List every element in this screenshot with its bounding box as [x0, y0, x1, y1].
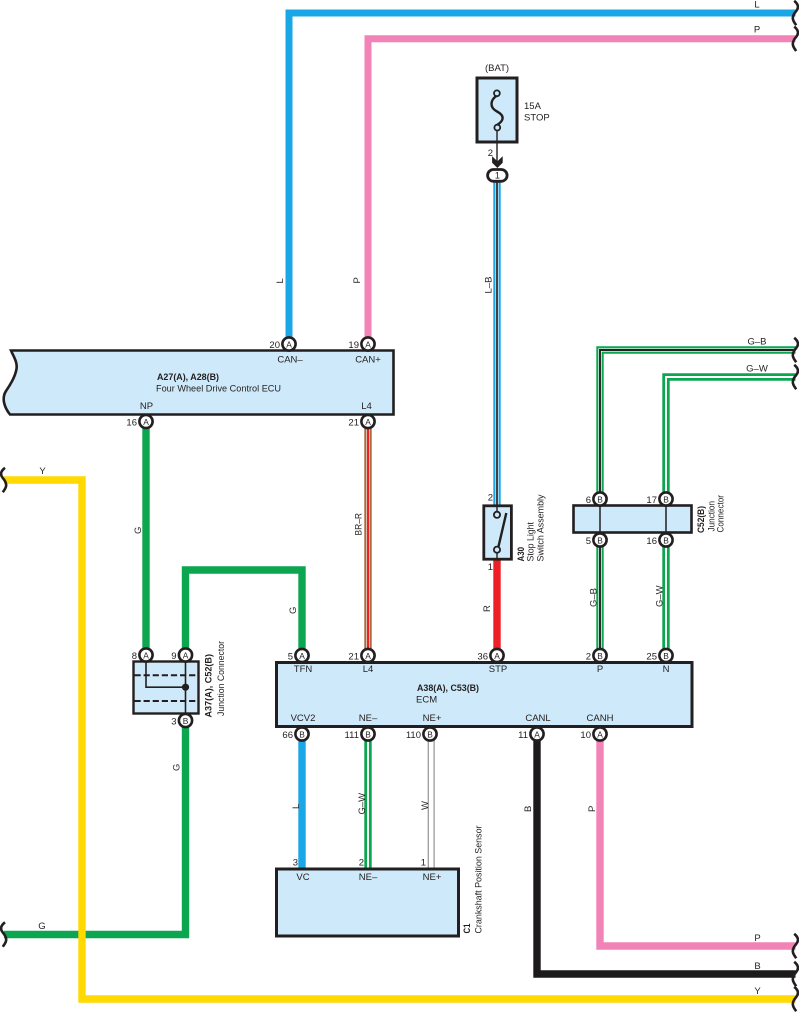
break (left, wire G) — [1, 922, 6, 946]
svg-text:36: 36 — [477, 652, 488, 663]
wire B (black) from ECM CANL 11 to right edge — [537, 740, 796, 974]
svg-text:Y: Y — [39, 466, 46, 477]
svg-text:G–B: G–B — [589, 588, 600, 607]
svg-text:C52(B): C52(B) — [696, 506, 707, 533]
svg-text:A: A — [494, 651, 500, 661]
svg-text:15A: 15A — [524, 101, 542, 112]
svg-text:R: R — [482, 605, 493, 612]
svg-text:B: B — [663, 535, 669, 545]
svg-text:6: 6 — [586, 495, 591, 506]
svg-text:11: 11 — [518, 730, 528, 741]
wire P (pink) to 4WD ECU CAN+ terminal 19 — [368, 39, 796, 340]
svg-text:B: B — [663, 494, 669, 504]
wire P (pink) from ECM CANH 10 to right edge — [600, 740, 796, 946]
svg-text:NE+: NE+ — [423, 872, 442, 883]
terminal 36 A (STP) — [477, 649, 503, 663]
wire G from 4WD ECU NP 16 to junction A37 terminal 8 — [142, 426, 149, 650]
svg-text:B: B — [597, 535, 603, 545]
svg-text:A: A — [534, 729, 540, 739]
terminal 66 B (VCV2) — [282, 727, 308, 741]
wire W (white) from ECM NE+ 110 to sensor C1 pin 1 — [428, 740, 434, 869]
terminal 9 A — [171, 648, 192, 662]
svg-text:Y: Y — [754, 986, 761, 997]
svg-text:Connector: Connector — [716, 495, 727, 533]
break (right, wire G-W) — [793, 365, 798, 389]
svg-text:66: 66 — [282, 730, 293, 741]
terminal 110 B (NE+) — [406, 727, 437, 741]
svg-text:VC: VC — [296, 872, 309, 883]
svg-text:L: L — [754, 0, 759, 11]
svg-text:17: 17 — [646, 495, 657, 506]
svg-text:A37(A), C52(B): A37(A), C52(B) — [204, 654, 215, 718]
svg-text:B: B — [597, 651, 603, 661]
svg-text:B: B — [597, 494, 603, 504]
svg-text:Four Wheel Drive Control ECU: Four Wheel Drive Control ECU — [156, 384, 281, 395]
wire BR-R from 4WD ECU L4 21 to ECM L4 21 — [364, 426, 371, 650]
svg-text:G–W: G–W — [357, 793, 368, 815]
wire R (red) from switch pin 1 to ECM STP 36 — [493, 559, 500, 650]
break (bottom right, wire Y) — [793, 987, 798, 1011]
svg-text:8: 8 — [132, 651, 137, 662]
svg-text:G: G — [172, 764, 183, 771]
svg-text:3: 3 — [171, 717, 176, 728]
terminal 21 A (L4 bottom) — [348, 649, 374, 663]
svg-text:VCV2: VCV2 — [291, 713, 316, 724]
svg-text:111: 111 — [345, 730, 359, 741]
svg-text:A: A — [597, 729, 603, 739]
svg-text:A: A — [365, 651, 371, 661]
svg-text:TFN: TFN — [294, 664, 313, 675]
svg-text:NP: NP — [140, 401, 153, 412]
wire L (blue) to 4WD ECU CAN- terminal 20 — [289, 13, 796, 340]
wire Y (yellow) from left edge down and across bottom to right edge — [4, 480, 796, 999]
wire L-B (blue/black) from fuse connector to stop light switch pin 2 — [493, 180, 500, 506]
svg-text:A27(A), A28(B): A27(A), A28(B) — [157, 372, 219, 383]
arrow into connector — [492, 156, 503, 168]
svg-text:1: 1 — [488, 562, 493, 573]
svg-text:25: 25 — [646, 652, 657, 663]
svg-text:B: B — [523, 806, 534, 812]
terminal 6 B — [586, 492, 607, 506]
svg-text:A38(A), C53(B): A38(A), C53(B) — [417, 683, 479, 694]
wire G-B from C52(B) terminal 5 to ECM P 2 — [596, 546, 603, 650]
terminal 2 B (P) — [586, 649, 607, 663]
svg-text:(BAT): (BAT) — [485, 63, 509, 74]
svg-text:NE+: NE+ — [423, 713, 442, 724]
svg-text:B: B — [663, 651, 669, 661]
wire L (blue) from ECM VCV2 66 to sensor C1 pin 3 — [298, 740, 305, 869]
svg-text:G–B: G–B — [747, 337, 766, 348]
svg-text:W: W — [420, 801, 431, 810]
terminal 17 B — [646, 492, 672, 506]
svg-text:C1: C1 — [462, 923, 473, 934]
svg-text:G–W: G–W — [655, 585, 666, 607]
svg-text:B: B — [427, 729, 433, 739]
terminal 21 A (L4 top) — [348, 415, 374, 429]
svg-text:Switch Assembly: Switch Assembly — [536, 494, 547, 561]
svg-text:P: P — [754, 25, 760, 36]
svg-text:21: 21 — [348, 652, 359, 663]
svg-text:L–B: L–B — [484, 277, 495, 294]
svg-text:B: B — [754, 961, 760, 972]
svg-text:CAN+: CAN+ — [355, 355, 381, 366]
svg-text:G–W: G–W — [746, 364, 768, 375]
four wheel drive control ECU box A27/A28 — [4, 351, 394, 415]
break (right, wire G-B) — [793, 338, 798, 362]
svg-text:CANH: CANH — [587, 713, 614, 724]
svg-text:A: A — [183, 650, 189, 660]
break (top right, wire P) — [793, 27, 798, 51]
wire G from junction A37 terminal 3 to left edge — [4, 726, 186, 935]
svg-text:B: B — [299, 729, 305, 739]
break (right, wire B) — [793, 962, 798, 986]
svg-text:CANL: CANL — [525, 713, 550, 724]
svg-text:STOP: STOP — [524, 113, 550, 124]
svg-text:G: G — [133, 527, 144, 534]
svg-text:P: P — [587, 806, 598, 812]
svg-text:L: L — [291, 804, 302, 809]
fuse 15A STOP (BAT) — [477, 63, 550, 163]
break (left, wire Y) — [1, 468, 6, 492]
svg-text:Crankshaft Position Sensor: Crankshaft Position Sensor — [474, 826, 485, 934]
terminal 16 A (NP) — [126, 415, 152, 429]
break (right, wire P) — [793, 934, 798, 958]
svg-text:BR–R: BR–R — [354, 513, 365, 536]
svg-text:L4: L4 — [361, 401, 372, 412]
svg-text:B: B — [183, 716, 189, 726]
svg-text:5: 5 — [288, 652, 293, 663]
wire G from junction A37 terminal 9 to ECM TFN 5 — [186, 570, 303, 650]
svg-text:A: A — [286, 339, 292, 349]
svg-text:1: 1 — [421, 858, 426, 869]
svg-text:10: 10 — [580, 730, 591, 741]
svg-text:16: 16 — [646, 536, 657, 547]
crankshaft position sensor C1 box — [277, 826, 485, 937]
terminal 11 A (CANL) — [518, 727, 543, 741]
connector oval 1 — [488, 170, 508, 182]
terminal 3 B — [171, 714, 192, 728]
svg-text:110: 110 — [406, 730, 421, 741]
svg-text:20: 20 — [269, 340, 280, 351]
svg-text:A: A — [143, 650, 149, 660]
svg-text:STP: STP — [489, 664, 507, 675]
junction connector C52(B) — [574, 495, 727, 533]
svg-text:P: P — [352, 277, 363, 283]
svg-text:A: A — [365, 417, 371, 427]
svg-text:B: B — [365, 729, 371, 739]
terminal 20 A (CAN-) — [269, 337, 295, 351]
terminal 5 A (TFN) — [288, 649, 309, 663]
svg-text:P: P — [597, 664, 603, 675]
terminal 10 A (CANH) — [580, 727, 606, 741]
svg-text:A: A — [299, 651, 305, 661]
svg-text:L4: L4 — [363, 664, 374, 675]
break (top right, wire L) — [793, 1, 798, 25]
terminal 5 B — [586, 533, 607, 547]
junction connector A37(A), C52(B) — [134, 641, 228, 718]
svg-text:P: P — [754, 933, 760, 944]
svg-text:Junction Connector: Junction Connector — [216, 641, 227, 716]
ECM box A38(A), C53(B) — [277, 663, 693, 727]
terminal 8 A — [132, 648, 153, 662]
svg-text:N: N — [663, 664, 670, 675]
wire G-W from C52(B) terminal 16 to ECM N 25 — [662, 546, 669, 650]
svg-text:G: G — [288, 607, 299, 614]
svg-text:5: 5 — [586, 536, 591, 547]
svg-text:19: 19 — [348, 340, 359, 351]
wire G-B (green/black) from right edge to C52(B) terminal 6 — [600, 350, 796, 494]
svg-text:21: 21 — [348, 418, 359, 429]
svg-text:9: 9 — [171, 651, 176, 662]
svg-text:2: 2 — [359, 858, 364, 869]
terminal 111 B (NE-) — [345, 727, 375, 741]
svg-text:A: A — [365, 339, 371, 349]
svg-text:2: 2 — [488, 493, 493, 504]
terminal 25 B (N) — [646, 649, 672, 663]
svg-text:G: G — [38, 921, 45, 932]
svg-text:NE–: NE– — [359, 713, 378, 724]
wire G-W from ECM NE- 111 to sensor C1 pin 2 — [364, 740, 371, 869]
terminal 19 A (CAN+) — [348, 337, 374, 351]
svg-text:CAN–: CAN– — [277, 355, 303, 366]
stop light switch assembly A30 — [484, 494, 547, 561]
svg-text:L: L — [275, 278, 286, 283]
svg-text:3: 3 — [293, 858, 298, 869]
terminal 16 B — [646, 533, 672, 547]
svg-text:2: 2 — [586, 652, 591, 663]
svg-text:NE–: NE– — [359, 872, 378, 883]
svg-text:A: A — [143, 417, 149, 427]
svg-text:1: 1 — [495, 171, 500, 181]
wire G-W (green/white) from right edge to C52(B) terminal 17 — [666, 377, 796, 494]
svg-text:ECM: ECM — [416, 695, 437, 706]
svg-text:16: 16 — [126, 418, 137, 429]
